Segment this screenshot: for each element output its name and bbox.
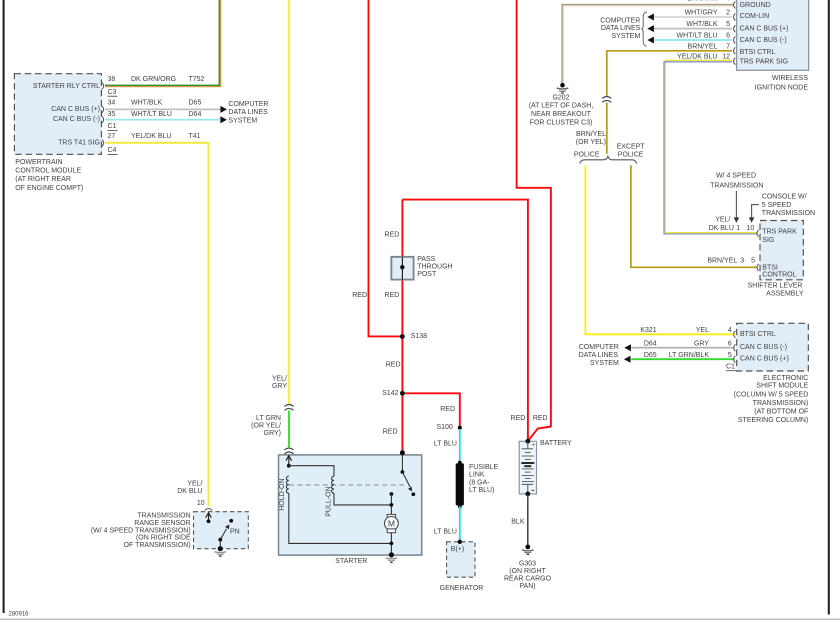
- svg-text:PASS: PASS: [417, 256, 435, 263]
- svg-text:WIRELESS: WIRELESS: [772, 75, 809, 82]
- svg-text:CAN C BUS (-): CAN C BUS (-): [740, 37, 787, 44]
- svg-text:6: 6: [728, 341, 732, 348]
- svg-text:SHIFTER LEVER: SHIFTER LEVER: [748, 283, 803, 290]
- svg-text:D64: D64: [189, 111, 202, 118]
- svg-text:34: 34: [108, 100, 116, 107]
- PCM pin 27 connector: [102, 139, 104, 146]
- svg-text:RED: RED: [385, 232, 400, 239]
- arrow (left) WHT/GRY: [647, 14, 654, 21]
- svg-text:B(+): B(+): [451, 546, 464, 553]
- wire YEL/GRY (from top): [288, 0, 290, 405]
- splice node S100: [458, 426, 462, 430]
- svg-text:REAR CARGO: REAR CARGO: [504, 576, 552, 583]
- svg-text:(OR YEL/: (OR YEL/: [251, 422, 281, 429]
- svg-text:5: 5: [728, 352, 732, 359]
- svg-text:TRANSMISSION: TRANSMISSION: [710, 183, 763, 190]
- svg-text:LT BLU: LT BLU: [434, 441, 457, 448]
- starter box: [279, 455, 422, 555]
- fusible link terminal dot (top): [458, 461, 462, 465]
- solenoid switch lever with arrowhead: [402, 472, 410, 487]
- svg-text:CAN C BUS (+): CAN C BUS (+): [51, 106, 100, 113]
- svg-text:(COLUMN W/ 5 SPEED: (COLUMN W/ 5 SPEED: [734, 392, 809, 399]
- svg-text:D64: D64: [644, 341, 657, 348]
- svg-text:CAN C BUS (+): CAN C BUS (+): [740, 26, 789, 33]
- fusible link terminal dot (bottom): [458, 504, 462, 508]
- battery minus sign: [532, 489, 535, 491]
- svg-text:6: 6: [726, 33, 730, 40]
- svg-text:WHT/BLK: WHT/BLK: [686, 21, 717, 28]
- svg-text:T752: T752: [189, 76, 205, 83]
- TRS switch lower pivot dot: [218, 538, 222, 542]
- wire LT GRN/BLK D65: [631, 358, 734, 360]
- WIN pin 2 connector: [734, 14, 736, 21]
- svg-text:COMPUTER: COMPUTER: [228, 101, 268, 108]
- svg-text:LT BLU): LT BLU): [469, 487, 494, 494]
- svg-text:COM-LIN: COM-LIN: [740, 13, 770, 20]
- svg-text:BRN/YEL: BRN/YEL: [576, 131, 606, 138]
- svg-text:S100: S100: [436, 424, 452, 431]
- wire RED (left feed from top): [369, 0, 403, 336]
- wire BRN/YEL below break: [606, 103, 608, 154]
- svg-text:280916: 280916: [9, 612, 30, 618]
- svg-text:(AT LEFT OF DASH,: (AT LEFT OF DASH,: [529, 103, 594, 110]
- battery negative terminal dot: [525, 492, 530, 497]
- svg-text:7: 7: [726, 43, 730, 50]
- svg-text:YEL/DK BLU: YEL/DK BLU: [677, 54, 717, 61]
- svg-text:5: 5: [726, 21, 730, 28]
- svg-text:+: +: [532, 443, 535, 449]
- svg-text:WHT/BLK: WHT/BLK: [131, 100, 162, 107]
- svg-text:27: 27: [108, 133, 116, 140]
- ESM pin 5 connector: [734, 356, 736, 363]
- svg-text:GENERATOR: GENERATOR: [440, 585, 484, 592]
- starter solenoid feed terminal dot: [400, 450, 405, 455]
- transmission range sensor box: [194, 512, 249, 549]
- motor M symbol: [387, 514, 395, 518]
- svg-text:D65: D65: [644, 352, 657, 359]
- svg-text:POST: POST: [417, 271, 437, 278]
- wire WHT/BLK D65: [105, 108, 220, 110]
- svg-text:SHIFT MODULE: SHIFT MODULE: [756, 383, 808, 390]
- svg-text:DATA LINES: DATA LINES: [228, 109, 268, 116]
- svg-text:RANGE SENSOR: RANGE SENSOR: [134, 520, 190, 527]
- svg-text:(ON RIGHT SIDE: (ON RIGHT SIDE: [136, 535, 191, 542]
- svg-text:STEERING COLUMN): STEERING COLUMN): [738, 417, 808, 424]
- svg-text:C1: C1: [726, 363, 735, 370]
- WIN pin 7 connector: [734, 47, 736, 54]
- svg-text:CAN C BUS (+): CAN C BUS (+): [740, 356, 789, 363]
- svg-text:HOLD-ON: HOLD-ON: [279, 478, 286, 510]
- wire BRN/TAN to G202 (brown part): [562, 5, 733, 85]
- wire BRN/YEL 7 from WIN: [607, 51, 732, 96]
- TRS switch lever with arrowhead: [220, 529, 226, 540]
- svg-text:ELECTRONIC: ELECTRONIC: [763, 375, 808, 382]
- wire BRN/YEL (EXCEPT POLICE branch): [631, 165, 758, 267]
- svg-text:2: 2: [726, 10, 730, 17]
- svg-text:10: 10: [197, 500, 205, 507]
- generator B(+) terminal dot: [458, 540, 462, 544]
- wire LT BLU (S100 to fusible link): [459, 429, 461, 463]
- svg-text:4: 4: [728, 327, 732, 334]
- svg-text:BRN/YEL: BRN/YEL: [707, 258, 737, 265]
- node: hold-on feed junction: [287, 464, 291, 468]
- wire to pull-on coil: [289, 466, 334, 477]
- TRS pin entry arrow: [208, 513, 210, 521]
- wire DK GRN/ORG T752 (green part): [105, 0, 219, 85]
- svg-text:S138: S138: [411, 333, 427, 340]
- svg-text:POLICE: POLICE: [618, 152, 644, 159]
- svg-text:PN: PN: [230, 529, 240, 536]
- svg-text:BTSI CTRL: BTSI CTRL: [740, 331, 776, 338]
- svg-text:GRY: GRY: [272, 383, 287, 390]
- svg-text:STARTER: STARTER: [335, 558, 367, 565]
- wire YEL (POLICE branch): [585, 165, 734, 334]
- svg-text:(ON RIGHT: (ON RIGHT: [509, 568, 546, 575]
- wire RED (battery loop: starter leg / battery leg): [402, 200, 528, 442]
- svg-text:C3: C3: [108, 89, 117, 96]
- svg-text:CAN C BUS (-): CAN C BUS (-): [740, 344, 787, 351]
- svg-text:BRN/TAN: BRN/TAN: [687, 0, 717, 3]
- shifter pin 10 connector: [757, 230, 759, 237]
- arrow from W/4 SPEED caption to pin 1: [735, 191, 737, 218]
- junction dot (hold-on meets motor ground lead): [390, 542, 394, 546]
- ground G303 symbol: [525, 545, 530, 550]
- svg-text:THROUGH: THROUGH: [417, 264, 452, 271]
- powertrain control module box: [14, 74, 101, 155]
- wire YEL/DK BLU 12 (blue tracer): [664, 62, 757, 234]
- PCM pin 38 connector: [102, 82, 104, 89]
- svg-text:5: 5: [751, 258, 755, 265]
- svg-text:RED: RED: [386, 361, 401, 368]
- splice break symbol on BRN/YEL: [602, 97, 611, 99]
- svg-text:NEAR BREAKOUT: NEAR BREAKOUT: [531, 111, 592, 118]
- wire WHT/LT BLU D64: [105, 119, 220, 121]
- svg-text:RED: RED: [383, 428, 398, 435]
- battery internal bottom T: [522, 483, 533, 485]
- svg-text:TRANSMISSION): TRANSMISSION): [753, 400, 809, 407]
- svg-text:YEL/: YEL/: [715, 216, 730, 223]
- pass-through post box: [391, 257, 413, 280]
- solenoid switch stem: [401, 455, 403, 472]
- svg-text:W/ 4 SPEED: W/ 4 SPEED: [716, 173, 756, 180]
- wire BRN/TAN to G202 (tan tracer): [563, 6, 733, 84]
- svg-text:RED: RED: [352, 292, 367, 299]
- svg-text:(8 GA-: (8 GA-: [469, 479, 490, 486]
- junction dot (pull-on meets motor lead): [390, 503, 394, 507]
- svg-text:SYSTEM: SYSTEM: [590, 360, 619, 367]
- svg-text:5 SPEED: 5 SPEED: [762, 202, 792, 209]
- svg-text:RED: RED: [440, 406, 455, 413]
- svg-text:COMPUTER: COMPUTER: [600, 18, 640, 25]
- WIN pin 5 connector: [734, 25, 736, 32]
- arrow (left) LT GRN/BLK: [624, 356, 631, 363]
- svg-text:WHT/GRY: WHT/GRY: [685, 10, 718, 17]
- TRS lever to case ground: [219, 540, 221, 549]
- page right border: [828, 0, 830, 615]
- svg-text:SYSTEM: SYSTEM: [228, 117, 257, 124]
- arrow from CONSOLE caption to pin 10: [752, 205, 759, 218]
- page left border: [3, 0, 5, 613]
- starter ground symbol: [386, 557, 398, 560]
- splice node S142: [400, 391, 405, 396]
- ground G202 symbol: [560, 83, 565, 88]
- TRS pin junction dot: [207, 519, 211, 523]
- PCM pin 35 connector: [102, 116, 104, 123]
- svg-text:CAN C BUS (-): CAN C BUS (-): [53, 116, 100, 123]
- svg-text:LT GRN: LT GRN: [256, 415, 281, 422]
- WIN pin 12 connector: [734, 58, 736, 65]
- svg-text:DK BLU: DK BLU: [177, 488, 202, 495]
- svg-text:DATA LINES: DATA LINES: [601, 25, 641, 32]
- starter pin entry arrow (hold-on feed): [288, 456, 290, 466]
- svg-text:CONSOLE W/: CONSOLE W/: [762, 194, 807, 201]
- svg-text:38: 38: [108, 76, 116, 83]
- solenoid switch pivot dot: [401, 470, 405, 474]
- svg-text:PULL-ON: PULL-ON: [325, 486, 332, 516]
- svg-text:S142: S142: [382, 390, 398, 397]
- svg-text:CONTROL MODULE: CONTROL MODULE: [15, 168, 81, 175]
- arrow (left) WHT/BLK: [647, 25, 654, 32]
- svg-text:BRN/YEL: BRN/YEL: [688, 43, 718, 50]
- generator box: [447, 542, 475, 577]
- motor feed contact dot: [390, 492, 394, 496]
- shifter lever assembly box: [760, 221, 803, 280]
- svg-text:POLICE: POLICE: [574, 152, 600, 159]
- svg-text:D65: D65: [189, 100, 202, 107]
- svg-text:TRANSMISSION: TRANSMISSION: [137, 513, 190, 520]
- svg-text:FUSIBLE: FUSIBLE: [469, 464, 499, 471]
- arrow to computer data lines (WHT/BLK): [220, 106, 227, 113]
- wire WHT/LT BLU 6: [654, 39, 732, 41]
- svg-text:SIG: SIG: [762, 237, 774, 244]
- solenoid switch end contact dot: [411, 492, 415, 496]
- svg-text:M: M: [388, 519, 395, 529]
- wire LT GRN (OR YEL/GRY): [288, 411, 290, 448]
- pass-through post internal conductor: [401, 257, 403, 280]
- svg-text:BTSI: BTSI: [762, 264, 778, 271]
- svg-text:G202: G202: [552, 94, 569, 101]
- svg-text:(AT RIGHT REAR: (AT RIGHT REAR: [15, 176, 71, 183]
- battery positive terminal dot: [525, 439, 530, 444]
- svg-text:TRS PARK: TRS PARK: [762, 229, 797, 236]
- battery internal top T: [527, 441, 529, 449]
- svg-text:C1: C1: [108, 123, 117, 130]
- TRS switch upper contact dot: [229, 519, 233, 523]
- svg-text:WHT/LT BLU: WHT/LT BLU: [131, 111, 172, 118]
- electronic shift module box: [737, 323, 809, 371]
- TRS pin connector arc: [205, 509, 212, 511]
- fusible link element: [456, 463, 464, 505]
- svg-text:GRY: GRY: [694, 341, 709, 348]
- svg-text:IGNITION NODE: IGNITION NODE: [755, 85, 809, 92]
- coil HOLD-ON: [286, 476, 288, 493]
- shifter pin 5 connector: [757, 264, 759, 271]
- svg-text:(W/ 4 SPEED TRANSMISSION): (W/ 4 SPEED TRANSMISSION): [91, 527, 191, 534]
- svg-text:TRS T41 SIG: TRS T41 SIG: [58, 139, 100, 146]
- svg-text:PAN): PAN): [519, 583, 535, 590]
- TRS case ground dot: [218, 546, 223, 551]
- svg-text:EXCEPT: EXCEPT: [617, 144, 646, 151]
- svg-text:OF ENGINE COMPT): OF ENGINE COMPT): [15, 185, 83, 192]
- TRS ground symbol: [215, 551, 227, 554]
- svg-text:YEL: YEL: [696, 327, 709, 334]
- wireless ignition node box: [737, 0, 809, 70]
- wire RED (main drop through pass-through post to starter): [401, 200, 403, 453]
- svg-text:YEL/: YEL/: [187, 480, 202, 487]
- svg-text:FOR CLUSTER C3): FOR CLUSTER C3): [530, 120, 593, 127]
- arrow to computer data lines (WHT/LT BLU): [220, 116, 227, 123]
- wire RED (right feed from top with jog): [517, 0, 551, 441]
- svg-text:10: 10: [747, 225, 755, 232]
- svg-text:K321: K321: [640, 327, 656, 334]
- PCM pin 34 connector: [102, 106, 104, 113]
- page bottom rule: [0, 618, 840, 620]
- svg-text:BATTERY: BATTERY: [540, 440, 572, 447]
- svg-text:TRS PARK SIG: TRS PARK SIG: [740, 59, 789, 66]
- svg-text:STARTER RLY CTRL: STARTER RLY CTRL: [33, 83, 100, 90]
- wire YEL/DK BLU 12 (yellow part): [665, 60, 757, 232]
- svg-text:BLK: BLK: [511, 518, 525, 525]
- svg-text:C4: C4: [108, 147, 117, 154]
- svg-text:(AT BOTTOM OF: (AT BOTTOM OF: [754, 409, 808, 416]
- svg-text:1: 1: [736, 225, 740, 232]
- splice break symbol on YEL/GRY: [284, 405, 293, 407]
- svg-text:COMPUTER: COMPUTER: [579, 344, 619, 351]
- battery cell plates: [525, 451, 531, 453]
- wire LT BLU (fusible link to generator): [459, 506, 461, 542]
- svg-text:RED: RED: [511, 415, 526, 422]
- svg-text:ASSEMBLY: ASSEMBLY: [766, 291, 804, 298]
- split brace symbol: [580, 156, 637, 163]
- pass-through post terminal dot: [400, 265, 404, 269]
- svg-text:3: 3: [740, 258, 744, 265]
- svg-text:LT BLU: LT BLU: [434, 529, 457, 536]
- mechanical linkage dashed line: [289, 484, 404, 486]
- splice break symbol on LT GRN: [284, 448, 293, 450]
- svg-text:YEL/: YEL/: [272, 375, 287, 382]
- starter case ground dot: [389, 552, 394, 557]
- wire GRY D64: [631, 347, 734, 349]
- svg-text:WHT/LT BLU: WHT/LT BLU: [677, 33, 718, 40]
- svg-text:35: 35: [108, 111, 116, 118]
- svg-text:DK BLU: DK BLU: [709, 225, 734, 232]
- WIN pin 4 connector: [734, 1, 736, 8]
- svg-text:SYSTEM: SYSTEM: [612, 33, 641, 40]
- wire BLK (battery to G303): [527, 494, 529, 545]
- svg-text:POWERTRAIN: POWERTRAIN: [15, 159, 62, 166]
- ESM pin 6 connector: [734, 344, 736, 351]
- arrow (left) WHT/LT BLU: [647, 37, 654, 44]
- svg-text:GROUND: GROUND: [740, 2, 771, 9]
- WIN pin 6 connector: [734, 37, 736, 44]
- battery box: [519, 441, 536, 494]
- arrow (left) GRY: [624, 344, 631, 351]
- svg-text:DATA LINES: DATA LINES: [579, 352, 619, 359]
- wire contact to motor: [390, 494, 392, 514]
- brace for computer data lines (top right): [641, 12, 647, 46]
- svg-text:(OR YEL): (OR YEL): [576, 139, 606, 146]
- svg-text:G303: G303: [519, 561, 536, 568]
- wire RED (S142 branch to S100): [402, 393, 459, 427]
- svg-text:RED: RED: [533, 415, 548, 422]
- wire hold-on coil to motor bottom: [289, 493, 392, 543]
- svg-text:TRANSMISSION: TRANSMISSION: [762, 210, 815, 217]
- wire WHT/GRY 2: [654, 16, 732, 18]
- svg-text:LINK: LINK: [469, 472, 485, 479]
- svg-text:YEL/DK BLU: YEL/DK BLU: [131, 133, 171, 140]
- svg-text:RED: RED: [385, 292, 400, 299]
- coil PULL-ON: [332, 476, 334, 493]
- svg-text:OF TRANSMISSION): OF TRANSMISSION): [124, 542, 191, 549]
- svg-text:CONTROL: CONTROL: [762, 272, 796, 279]
- wire motor to ground: [390, 533, 392, 555]
- wire DK GRN/ORG T752 (orange tracer): [105, 0, 221, 87]
- svg-text:T41: T41: [189, 133, 201, 140]
- svg-text:GRY): GRY): [264, 430, 281, 437]
- splice node S138: [400, 334, 405, 339]
- svg-text:4: 4: [726, 0, 730, 3]
- svg-text:12: 12: [722, 54, 730, 61]
- wire WHT/BLK 5: [654, 28, 732, 30]
- svg-text:DK GRN/ORG: DK GRN/ORG: [131, 76, 176, 83]
- svg-text:BTSI CTRL: BTSI CTRL: [740, 49, 776, 56]
- ESM pin 4 connector: [734, 331, 736, 338]
- wire pull-on coil to motor top junction: [334, 493, 391, 505]
- svg-text:LT GRN/BLK: LT GRN/BLK: [669, 352, 710, 359]
- wire YEL/DK BLU T41: [105, 143, 208, 506]
